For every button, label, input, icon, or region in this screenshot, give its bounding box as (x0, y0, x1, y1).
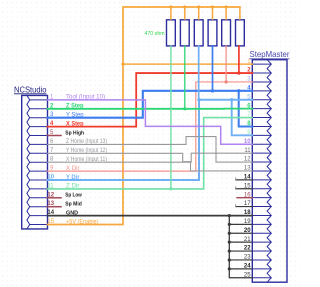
wire X Dir NCStudio pin9 to StepMaster pin3 (48, 82, 253, 171)
svg-text:11: 11 (47, 183, 54, 189)
wire Y Dir branch to StepMaster pin9 (232, 100, 253, 136)
wire stub StepMaster pin16 (237, 197, 252, 199)
svg-text:Y Home (Input 12): Y Home (Input 12) (66, 148, 107, 154)
pin 10 label Y Dir (47, 175, 80, 181)
junction dot +5V branch (121, 62, 124, 65)
svg-text:Sp Mid: Sp Mid (65, 202, 82, 208)
svg-text:470 ohm: 470 ohm (145, 31, 165, 37)
svg-text:12: 12 (244, 157, 251, 163)
svg-text:Y Dir: Y Dir (66, 175, 80, 181)
junction dot Z Dir R1 (169, 187, 172, 190)
svg-text:Sp Low: Sp Low (65, 193, 82, 199)
svg-text:Tool (Input 10): Tool (Input 10) (66, 95, 105, 101)
wire stub Sp Low pin12 (48, 197, 62, 199)
junction dot Y Step R4 (211, 89, 214, 92)
connector J1 NCStudio body (22, 95, 48, 229)
wire R2 to Z Step (184, 46, 186, 109)
svg-text:Z Step: Z Step (66, 104, 84, 110)
junction dot Y Dir branch (230, 98, 233, 101)
svg-text:Y Step: Y Step (66, 113, 84, 119)
junction dot Y Step branch (237, 89, 240, 92)
svg-text:22: 22 (244, 246, 251, 252)
pin 15 label +5V (Enable) (47, 219, 98, 225)
wire stub StepMaster pin14 (236, 178, 253, 180)
wire Tool NCStudio pin1 to StepMaster pin10 (48, 100, 253, 144)
svg-text:17: 17 (244, 201, 251, 207)
resistor R2 470 ohm (180, 20, 189, 46)
wire stub StepMaster pin15 (236, 187, 253, 189)
wire GND NCStudio pin14 to StepMaster pin18 (48, 215, 253, 217)
wire +5V stubs to resistor tops (171, 7, 240, 20)
pin 3 label Y Step (50, 112, 84, 118)
resistor R4 470 ohm (208, 20, 217, 46)
pin 13 label Sp Mid (47, 201, 82, 207)
svg-text:18: 18 (244, 210, 251, 216)
wire Y Step NCStudio pin3 to StepMaster pin4 (48, 91, 253, 118)
svg-text:X Home (Input 11): X Home (Input 11) (66, 157, 107, 163)
junction dot X Dir R5 (225, 80, 228, 83)
svg-text:24: 24 (244, 263, 251, 269)
svg-text:20: 20 (244, 228, 251, 234)
wire R1 to Z Dir (170, 46, 172, 189)
junction dot X Step R6 (237, 71, 240, 74)
svg-text:21: 21 (244, 237, 251, 243)
connector J2 pin numbers 1-25 (244, 59, 251, 279)
pin 2 label Z Step (50, 103, 84, 109)
svg-text:25: 25 (244, 272, 251, 278)
svg-text:13: 13 (244, 166, 251, 172)
wire X Step NCStudio pin4 to StepMaster pin2 (48, 73, 253, 127)
wire stub Sp High pin5 (48, 135, 62, 137)
pin 11 label Z Dir (47, 183, 79, 189)
svg-text:11: 11 (244, 148, 251, 154)
svg-text:15: 15 (47, 219, 54, 225)
junction dots on +5V rail (169, 5, 227, 8)
pin 5 label Sp High (50, 130, 85, 136)
pin 7 label Y Home (Input 12) (50, 148, 107, 154)
pin 4 label X Step (50, 121, 84, 127)
svg-text:19: 19 (244, 219, 251, 225)
svg-text:GND: GND (66, 210, 78, 216)
resistor R3 470 ohm (194, 20, 203, 46)
svg-text:23: 23 (244, 255, 251, 261)
wire Y Home NCStudio pin7 to StepMaster pin13 (48, 153, 253, 171)
svg-text:13: 13 (47, 201, 54, 207)
wire R5 to X Dir (225, 46, 227, 82)
wire Z Dir NCStudio pin11 to StepMaster pin7 (48, 118, 253, 189)
svg-text:+5V (Enable): +5V (Enable) (66, 219, 99, 225)
wire Y Dir NCStudio pin10 to StepMaster pin5 (48, 100, 253, 180)
svg-text:Z Home (Input 13): Z Home (Input 13) (66, 139, 107, 145)
wire Z Step NCStudio pin2 to StepMaster pin6 (48, 108, 253, 110)
pin 12 label Sp Low (47, 192, 82, 198)
wire GND bus vertical to pin25 (229, 216, 252, 278)
wire +5V branch to StepMaster pin 1 (123, 63, 252, 65)
connector J2 StepMaster title (250, 50, 290, 59)
wire Z Home NCStudio pin6 to StepMaster pin12 (48, 137, 253, 162)
junction dots GND bus (228, 214, 231, 270)
svg-text:14: 14 (244, 174, 251, 180)
svg-text:14: 14 (47, 210, 54, 216)
svg-text:X Dir: X Dir (66, 166, 80, 172)
junction dot Y Dir R3 (197, 98, 200, 101)
wire +5V from NCStudio pin15 riser and top rail (48, 7, 240, 225)
connector J2 StepMaster body (252, 60, 287, 283)
pin 8 label X Home (Input 11) (50, 157, 107, 163)
resistor value label 470 ohm (145, 31, 165, 37)
pin 6 label Z Home (Input 13) (50, 139, 107, 145)
wire GND stubs pins 19-24 (229, 224, 252, 269)
svg-text:StepMaster: StepMaster (250, 50, 290, 59)
resistor R5 470 ohm (222, 20, 231, 46)
wire R3 to Y Dir (198, 46, 200, 100)
wire Y Step branch to StepMaster pin8 (239, 91, 253, 127)
svg-text:NCStudio: NCStudio (14, 84, 47, 94)
svg-text:16: 16 (244, 192, 251, 198)
pin 1 label Tool (Input 10) (50, 94, 105, 100)
junction dot Z Step R2 (183, 107, 186, 110)
wire stub Sp Mid pin13 (48, 206, 62, 208)
svg-text:10: 10 (244, 139, 251, 145)
wire X Home NCStudio pin8 to StepMaster pin11 (48, 153, 253, 162)
pin 9 label X Dir (50, 166, 80, 172)
connector J1 NCStudio title (14, 84, 47, 94)
wire stub StepMaster pin17 (236, 204, 253, 206)
resistor R1 470 ohm (167, 20, 176, 46)
svg-text:Z Dir: Z Dir (66, 184, 80, 190)
resistor R6 470 ohm (236, 20, 245, 46)
svg-text:15: 15 (244, 183, 251, 189)
svg-text:12: 12 (47, 192, 54, 198)
wire R4 to Y Step (212, 46, 214, 91)
wire R6 to X Step (238, 46, 240, 73)
svg-text:Sp High: Sp High (65, 130, 84, 136)
pin 14 label GND (47, 210, 78, 216)
svg-text:10: 10 (47, 175, 54, 181)
svg-text:X Step: X Step (66, 121, 84, 127)
